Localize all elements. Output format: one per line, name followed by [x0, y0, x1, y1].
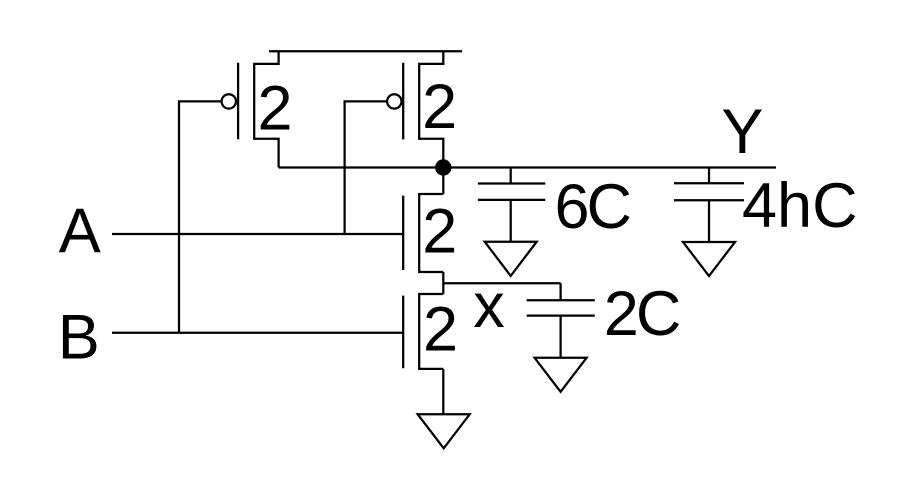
nmos N2 (B-input pull-down) — [403, 294, 443, 369]
wire N2 source to ground — [442, 369, 444, 414]
capacitor 4hC — [674, 168, 744, 243]
wire B input — [112, 332, 403, 334]
pmos P1 (B-input pull-up) — [222, 51, 279, 167]
wire output Y — [279, 166, 776, 168]
node Y junction — [435, 159, 451, 175]
svg-text:2C: 2C — [604, 279, 680, 349]
ground (2C) — [535, 358, 587, 392]
ground (below N2) — [418, 414, 470, 448]
pmos P2 (A-input pull-up) — [387, 51, 443, 167]
svg-text:Y: Y — [721, 97, 763, 167]
svg-text:2: 2 — [422, 72, 457, 142]
capacitor 2C — [527, 283, 595, 358]
ground (4hC) — [683, 242, 735, 276]
wire A to P2 gate — [345, 101, 388, 234]
wire N1 source to N2 drain — [442, 272, 444, 294]
nmos N1 (A-input pull-down) — [403, 194, 443, 272]
svg-text:6C: 6C — [555, 172, 631, 242]
wire B to P1 gate — [179, 101, 222, 332]
svg-text:B: B — [58, 303, 100, 373]
wire VDD rail — [269, 50, 462, 52]
svg-text:2: 2 — [258, 73, 293, 143]
svg-text:2: 2 — [423, 294, 458, 364]
wire A input — [112, 233, 403, 235]
svg-text:A: A — [59, 196, 101, 266]
ground (6C) — [485, 242, 537, 276]
svg-text:4hC: 4hC — [742, 171, 858, 241]
wire N1 drain to Y node — [442, 168, 444, 195]
svg-text:x: x — [473, 271, 505, 341]
capacitor 6C — [478, 168, 545, 242]
wire node x — [443, 282, 560, 284]
svg-text:2: 2 — [422, 197, 457, 267]
